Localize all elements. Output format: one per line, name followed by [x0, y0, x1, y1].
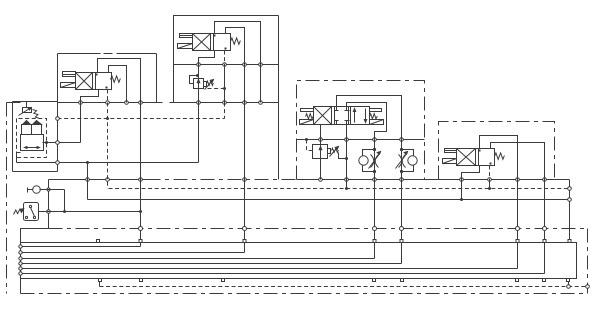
- bus line 7: [21, 273, 545, 275]
- bus y=102.5 ports: [79, 101, 83, 105]
- wire x=461.8 down: [461, 180, 463, 200]
- pump bottom loop to bus: [17, 153, 21, 163]
- boundary port circles y=228.3: [139, 227, 143, 231]
- valve D pilot wire 2: [491, 143, 545, 180]
- wire x=347: [346, 140, 348, 189]
- valve D pilot wire 1: [480, 136, 518, 180]
- valve A drain dashed: [224, 51, 226, 65]
- valve A spring: [231, 38, 241, 44]
- wire x=544 down to bottom block: [544, 180, 546, 274]
- valve C bus y=139.3: [297, 139, 425, 141]
- bottom drain dashed line y=286.2: [100, 286, 588, 288]
- valve A pilot wire 1: [215, 22, 261, 65]
- wire x=141 from valve B to bottom block: [140, 103, 142, 247]
- dashed drain vertical x=224.9: [224, 103, 226, 119]
- block B outline: [58, 54, 157, 103]
- block B left edge / left bus vertical: [57, 54, 59, 172]
- valve A body: [193, 34, 231, 51]
- A2 spring and adjust arrow: [204, 82, 207, 87]
- long rail y=179.2: [49, 180, 570, 242]
- reducing valve A2: [194, 79, 204, 89]
- wire from switch bus to bottom-left corner: [21, 229, 49, 294]
- valve D drain dashed: [489, 166, 491, 180]
- valve B drain dashed: [107, 90, 109, 103]
- block A outline (solid): [174, 16, 279, 103]
- gauge loop to switch line: [49, 190, 65, 212]
- valve B spring: [111, 76, 121, 82]
- pressure switch line: [39, 211, 141, 213]
- valve D solenoid: [445, 149, 457, 153]
- long bus y=102.5: [58, 102, 279, 104]
- row y=163 wire: [17, 162, 199, 164]
- valve D spring: [495, 153, 505, 159]
- bus gap dash between blocks: [157, 102, 174, 104]
- valve C pilot wire 2: [347, 103, 387, 140]
- bus line 5: [21, 263, 402, 265]
- valve D drain to dashed rail: [489, 180, 491, 189]
- bus block rectangle top/bottom/right: [21, 243, 577, 279]
- valve C pilot wire 1: [337, 96, 402, 140]
- C2 spring and adjust arrow: [328, 149, 331, 154]
- valve A drain continues: [224, 65, 226, 103]
- valve D bottom step wire: [462, 166, 480, 180]
- valve C left solenoid+spring: [301, 109, 314, 112]
- manifold boundary right edge: [587, 229, 589, 294]
- valve A solenoid: [180, 34, 193, 38]
- valve A bus y=64.4: [174, 64, 279, 66]
- valve A bottom step wire: [199, 51, 215, 65]
- wire x=244.6: [244, 65, 246, 253]
- wire valve B port to pump assembly y=142.5: [43, 103, 81, 143]
- block A right edge wire down to rail: [278, 16, 280, 180]
- outer manifold dash-dot boundary left edge: [7, 103, 21, 294]
- bus line 6: [21, 268, 518, 270]
- bus line 3: [21, 252, 245, 254]
- valve D body: [457, 149, 495, 166]
- dashed drain y=118.4: [58, 118, 225, 120]
- gauge bus x=48.3: [48, 180, 50, 229]
- valve B bottom step wire: [81, 90, 99, 103]
- wire x=198.1 from valve A down: [198, 65, 200, 163]
- wire x=517.2 down to bottom block: [517, 180, 519, 269]
- valve B pilot wire 2: [109, 66, 127, 103]
- pump body rects: [22, 125, 42, 135]
- check triangles: [23, 121, 31, 125]
- switch spring arrow: [14, 209, 22, 214]
- flow control FC1: [359, 140, 381, 259]
- pressure switch: [24, 203, 39, 221]
- valve B pilot wire 1: [98, 59, 141, 103]
- relief spring diagonal: [33, 110, 39, 119]
- valve C right solenoid+spring: [370, 109, 382, 112]
- C2 pilot dashed: [307, 140, 313, 151]
- C2 drain: [339, 153, 347, 159]
- manifold boundary line y=228: [49, 228, 588, 230]
- A2 pilot loop: [190, 76, 198, 84]
- port squares on bus block top edge: [97, 240, 100, 243]
- dashed drain line y=190.3: [109, 188, 570, 190]
- port squares under bus block bottom edge: [99, 279, 102, 282]
- long line y=200.3: [88, 199, 570, 201]
- flow control FC2: [396, 140, 418, 264]
- dashed drain vertical x=107.5: [107, 103, 109, 189]
- pressure gauge: [33, 186, 41, 194]
- bus line 4: [21, 258, 375, 260]
- valve C body: [314, 107, 370, 125]
- block C dash-dot outline: [297, 81, 425, 180]
- valve A pilot wire 2: [226, 28, 245, 65]
- wire x=87.3 drop: [87, 163, 89, 200]
- A2 drain dashed: [208, 88, 225, 90]
- valve A bus ports: [197, 63, 201, 67]
- relief valve R1: [23, 108, 32, 113]
- reducing valve C2: [313, 145, 328, 159]
- block D dash-dot outline: [439, 122, 555, 180]
- valve B body: [76, 73, 112, 90]
- manifold boundary bottom edge: [21, 293, 588, 295]
- pump/relief assembly dashed sub-box: [17, 119, 47, 158]
- valve B solenoid: [63, 72, 76, 77]
- bus line 2: [21, 246, 141, 248]
- loop wire y=171.9: [13, 102, 58, 172]
- valve C bottom wires: [321, 125, 347, 140]
- wire x=261: [260, 65, 262, 103]
